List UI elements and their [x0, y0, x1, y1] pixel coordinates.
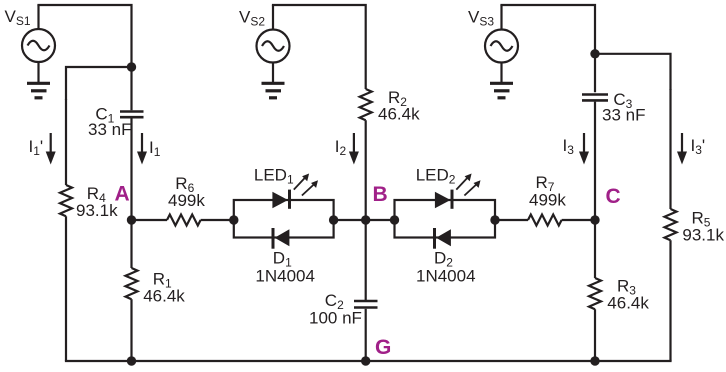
junction node dot box1 right [329, 215, 338, 224]
wire R2 to node B and C2 [365, 120, 367, 300]
resistor R4 [60, 185, 72, 216]
wire right outer branch lower [669, 240, 671, 361]
LED LED1 [272, 174, 318, 209]
capacitor C3 [582, 95, 608, 101]
current arrow I1 [137, 133, 147, 165]
junction node dot box2 right [490, 215, 499, 224]
junction node dot B [361, 215, 370, 224]
svg-text:100 nF: 100 nF [309, 309, 362, 328]
ground (V_S2) [262, 83, 285, 98]
AC source V_S2 [257, 5, 290, 83]
ground (V_S1) [27, 83, 50, 98]
wire LED1/D1 parallel box [234, 200, 334, 238]
svg-text:A: A [115, 183, 130, 206]
svg-text:33 nF: 33 nF [88, 120, 131, 139]
resistor R6 [167, 215, 201, 226]
svg-text:46.4k: 46.4k [143, 286, 185, 305]
AC source V_S1 [22, 5, 55, 83]
junction node dot bottom C [590, 356, 599, 365]
current arrow I1' [46, 133, 56, 165]
junction node dot (left stub) [127, 62, 136, 71]
svg-text:LED1: LED1 [254, 166, 294, 187]
svg-text:46.4k: 46.4k [607, 294, 649, 313]
wire left outer branch lower [65, 216, 67, 361]
svg-text:G: G [375, 336, 391, 359]
junction node dot bottom A [127, 356, 136, 365]
wire left outer branch upper [65, 99, 67, 185]
svg-text:1N4004: 1N4004 [255, 267, 315, 286]
svg-text:VS1: VS1 [5, 7, 31, 28]
current arrow I3 [579, 133, 589, 165]
wire box2 to R7 [495, 219, 528, 221]
diode D1 [272, 228, 290, 249]
svg-text:C: C [606, 185, 621, 208]
wire C1 to node A [130, 119, 132, 221]
resistor R1 [126, 268, 138, 299]
resistor R5 [665, 209, 677, 240]
wire node A down to R1 [130, 220, 132, 268]
wire bottom rail [65, 360, 672, 362]
junction node dot bottom G [361, 356, 370, 365]
junction node dot box2 left [390, 215, 399, 224]
current arrow I3' [677, 133, 687, 165]
svg-text:499k: 499k [529, 191, 566, 210]
wire C3 to node C [594, 102, 596, 220]
resistor R3 [589, 278, 601, 309]
capacitor C1 [120, 112, 144, 118]
wire right stub [595, 54, 671, 90]
wire node C down to R3 [594, 220, 596, 278]
svg-text:1N4004: 1N4004 [416, 267, 476, 286]
resistor R7 [528, 215, 562, 226]
LED D1 box to node B wire [334, 219, 366, 221]
junction node dot (right stub) [590, 49, 599, 58]
wire R6 to box1 [201, 219, 234, 221]
AC source V_S3 [485, 5, 518, 83]
capacitor C2 [354, 301, 378, 308]
wire R7 to node C [562, 219, 595, 221]
LED LED2 [435, 174, 481, 209]
svg-text:I3': I3' [691, 136, 706, 157]
svg-text:LED2: LED2 [416, 166, 456, 187]
wire top rail 2 [272, 5, 366, 89]
wire node A to R6 [132, 219, 168, 221]
svg-text:I1: I1 [149, 138, 161, 159]
junction node dot C [590, 215, 599, 224]
svg-text:VS2: VS2 [239, 8, 265, 29]
svg-text:I3: I3 [563, 136, 575, 157]
svg-text:I2: I2 [335, 137, 347, 158]
svg-text:VS3: VS3 [468, 8, 494, 29]
ground (V_S3) [490, 83, 513, 98]
wire R1 to bottom rail [130, 299, 132, 361]
wire C2 to bottom rail [365, 309, 367, 361]
diode D2 [433, 228, 451, 249]
svg-text:93.1k: 93.1k [76, 201, 118, 220]
svg-text:499k: 499k [168, 191, 205, 210]
svg-text:93.1k: 93.1k [682, 226, 724, 245]
resistor R2 [360, 89, 372, 120]
svg-text:I1': I1' [29, 137, 44, 158]
wire left stub at node top [66, 67, 132, 100]
wire right outer branch upper [669, 89, 671, 209]
junction node dot box1 left [229, 215, 238, 224]
wire LED2/D2 parallel box [395, 200, 496, 238]
wire top rail 1 [37, 5, 131, 110]
current arrow I2 [349, 133, 359, 165]
wire top rail 3 [500, 5, 595, 92]
svg-text:B: B [373, 183, 388, 206]
wire node B to box2 [366, 219, 395, 221]
wire R3 to bottom rail [594, 309, 596, 361]
junction node dot A [127, 215, 136, 224]
svg-text:33 nF: 33 nF [602, 106, 645, 125]
svg-text:46.4k: 46.4k [378, 104, 420, 123]
